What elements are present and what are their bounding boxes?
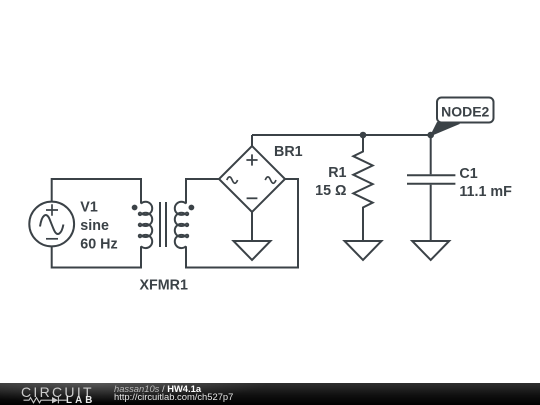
- footer meta text: [114, 384, 233, 402]
- svg-text:XFMR1: XFMR1: [140, 277, 189, 293]
- wire top rail: [252, 134, 431, 136]
- svg-text:NODE2: NODE2: [441, 103, 489, 119]
- logo LAB: [66, 395, 95, 405]
- wire primary top: [52, 179, 141, 204]
- svg-text:60 Hz: 60 Hz: [80, 237, 117, 253]
- logo schematic squiggle: [23, 395, 68, 405]
- resistor R1: [353, 135, 372, 241]
- svg-text:V1: V1: [80, 200, 98, 216]
- svg-text:sine: sine: [80, 218, 109, 234]
- svg-text:BR1: BR1: [274, 144, 303, 160]
- junction dot (C1 / NODE2): [427, 132, 434, 139]
- wire primary bottom: [52, 246, 141, 267]
- logo CIRCUIT: [21, 384, 94, 400]
- wire secondary top: [186, 179, 219, 204]
- ground (bridge): [234, 241, 271, 260]
- ground (C1): [412, 241, 449, 260]
- wire bridge bottom to ground: [251, 212, 253, 241]
- svg-text:C1: C1: [459, 166, 477, 182]
- svg-text:R1: R1: [328, 165, 346, 181]
- node NODE2 flag: [431, 98, 494, 136]
- ground (R1): [345, 241, 382, 260]
- svg-text:15 Ω: 15 Ω: [315, 183, 346, 199]
- wire secondary bottom: [186, 179, 298, 268]
- capacitor C1: [407, 135, 455, 241]
- footer bar: [0, 383, 540, 405]
- transformer XFMR1: [132, 202, 195, 248]
- junction dot (R1): [360, 132, 367, 139]
- voltage source V1: [29, 202, 74, 247]
- svg-text:11.1 mF: 11.1 mF: [459, 184, 512, 200]
- wire bridge top vertex to rail: [251, 135, 253, 146]
- bridge rectifier BR1: [219, 146, 285, 212]
